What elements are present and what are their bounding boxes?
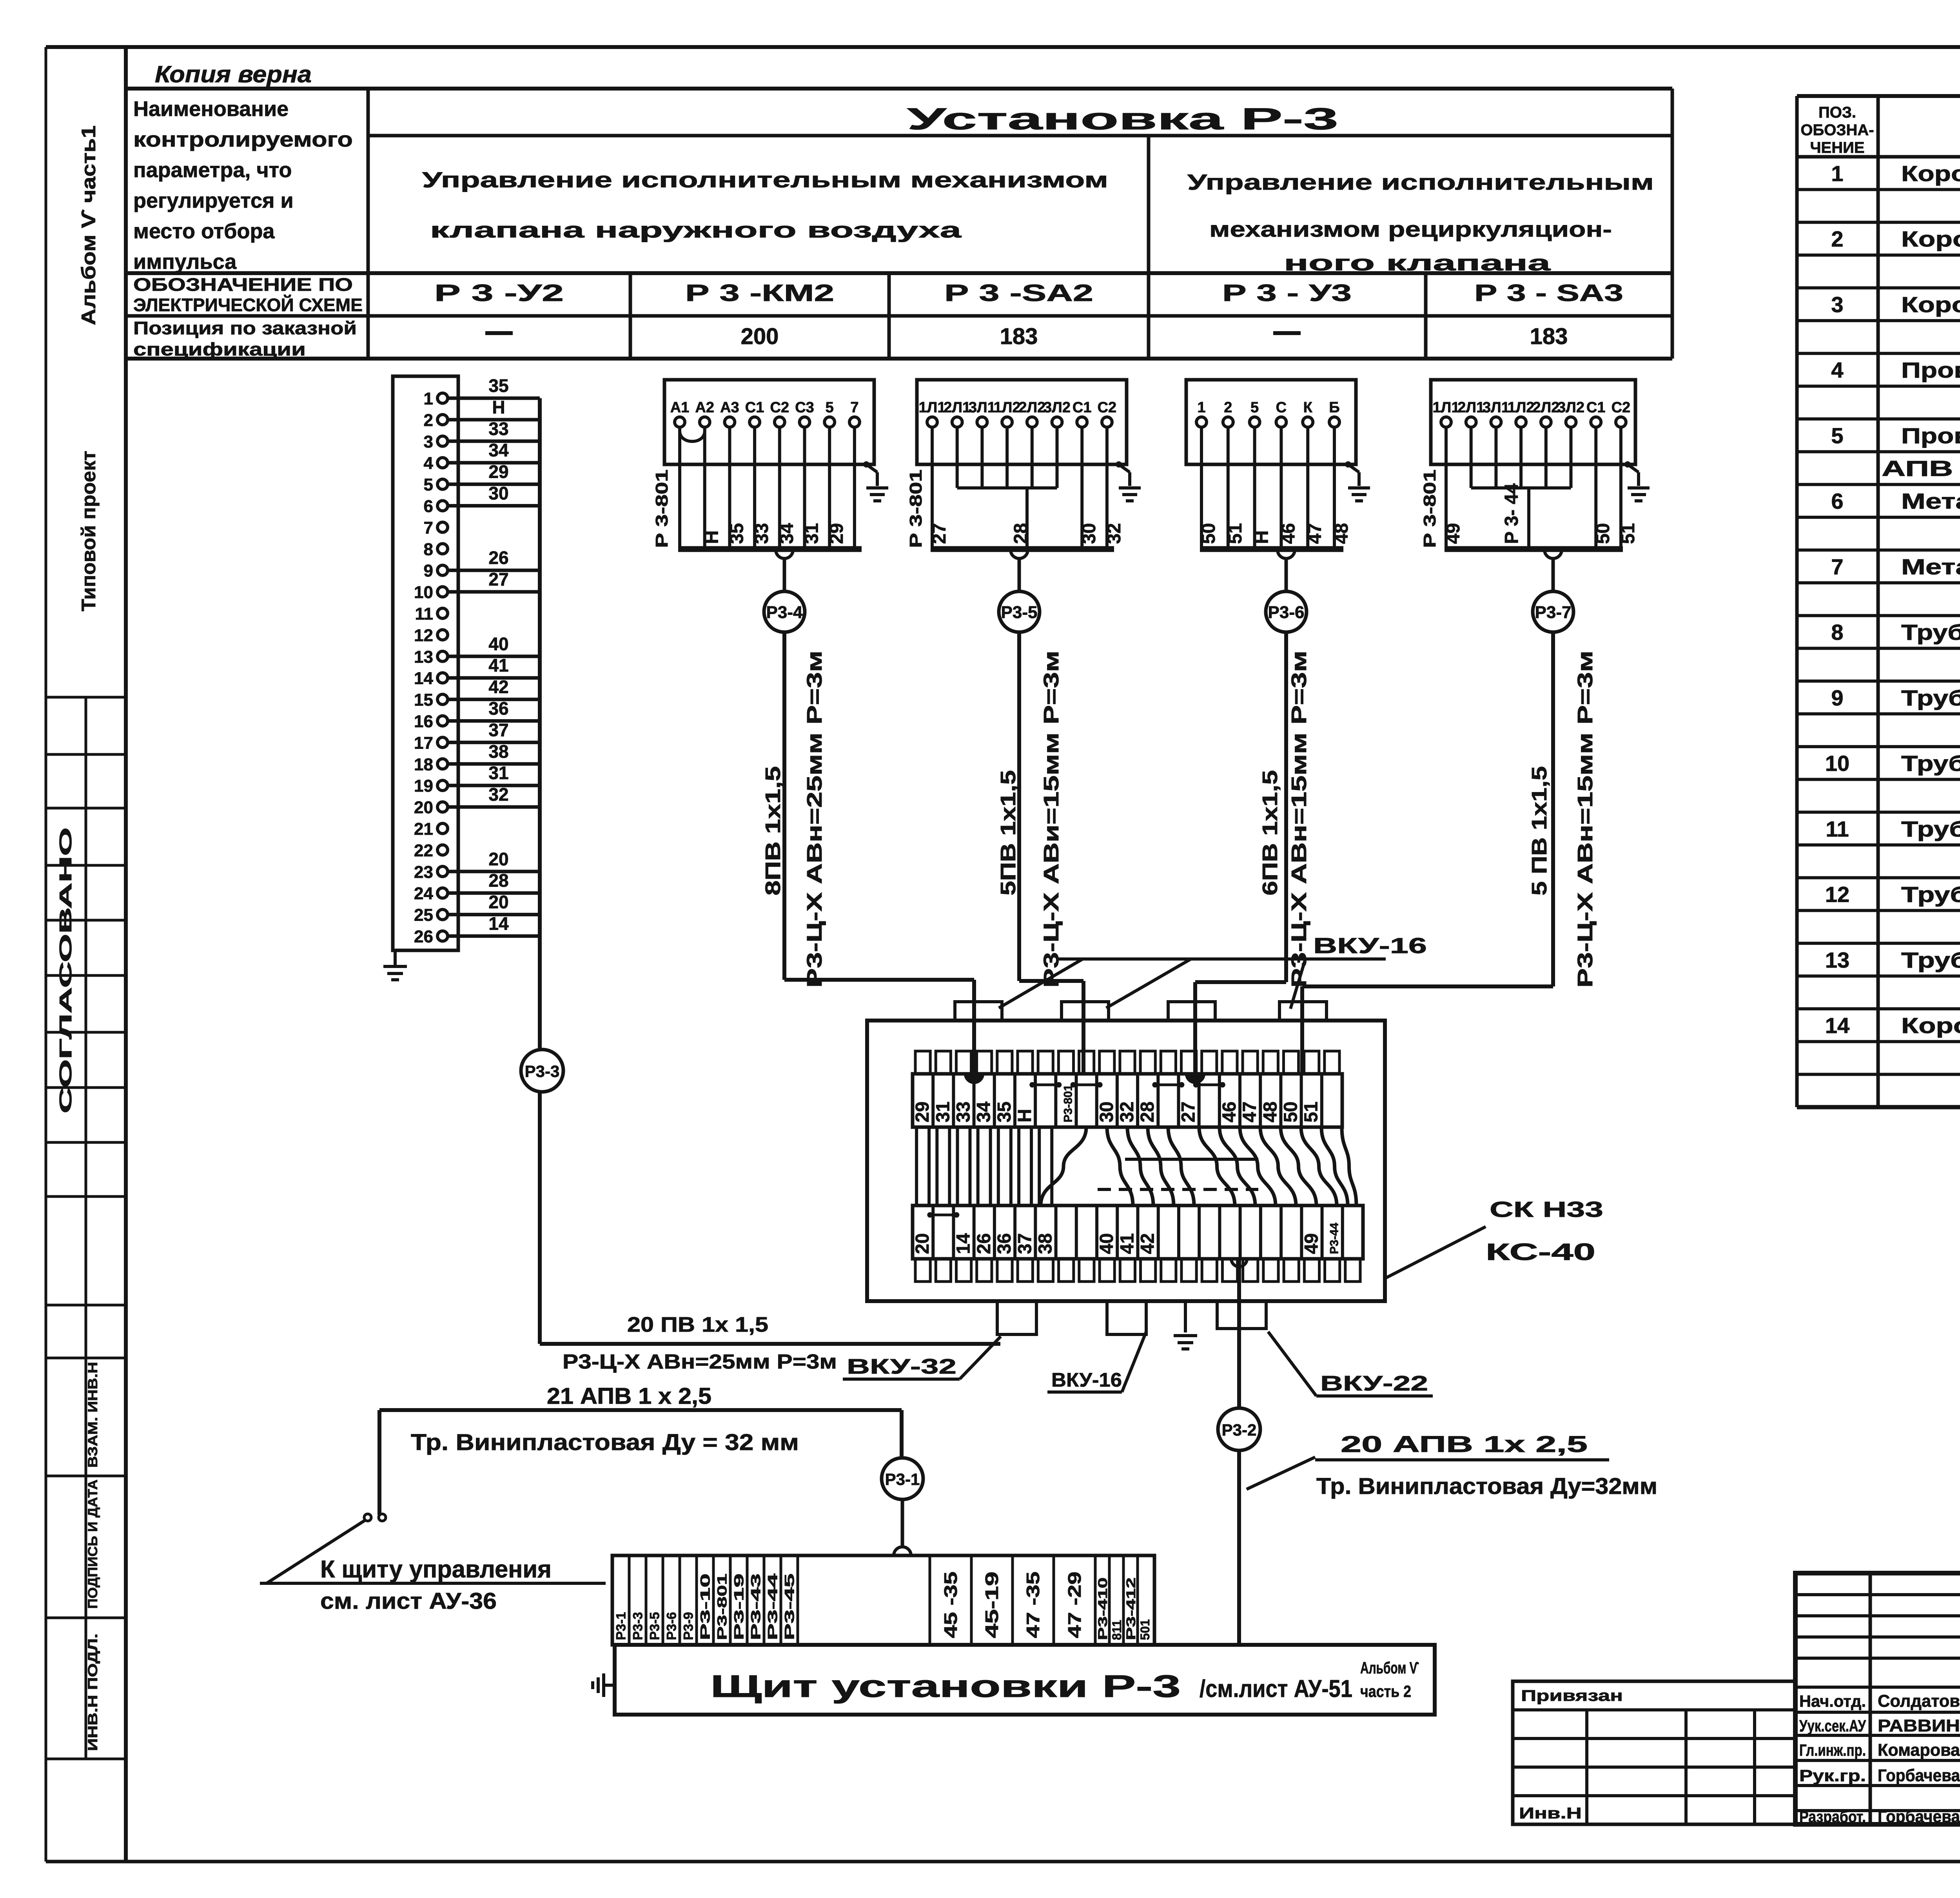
svg-text:Солдатов: Солдатов [1878,1691,1960,1711]
svg-text:Комарова: Комарова [1878,1740,1960,1760]
svg-text:Р 3 -У2: Р 3 -У2 [434,280,564,306]
svg-text:Металлорукав Р3-Ц-Х-15: Металлорукав Р3-Ц-Х-15 [1901,489,1960,513]
svg-text:/см.лист АУ-51: /см.лист АУ-51 [1200,1675,1352,1702]
svg-text:8: 8 [1831,620,1843,645]
svg-text:31: 31 [933,1102,953,1122]
svg-text:51: 51 [1618,523,1639,544]
svg-text:Рук.гр.: Рук.гр. [1799,1766,1866,1785]
svg-text:3Л1: 3Л1 [969,399,996,416]
svg-text:Р3-7: Р3-7 [1535,603,1572,622]
svg-text:50: 50 [1593,523,1613,544]
svg-text:Труба винипластовая Ду=20мм: Труба винипластовая Ду=20мм [1901,685,1960,710]
svg-text:1: 1 [424,389,433,408]
svg-text:ОБОЗНА-: ОБОЗНА- [1800,121,1874,139]
svg-text:42: 42 [1138,1233,1158,1254]
svg-text:Н: Н [1014,1109,1035,1122]
svg-text:см. лист АУ-36: см. лист АУ-36 [320,1588,497,1614]
svg-text:6: 6 [424,497,433,516]
svg-text:20: 20 [912,1233,933,1254]
svg-text:8: 8 [424,540,433,559]
svg-text:183: 183 [1000,324,1038,349]
svg-text:параметра, что: параметра, что [133,158,292,182]
svg-text:часть 2: часть 2 [1360,1682,1411,1700]
svg-text:ного клапана: ного клапана [1284,250,1551,275]
svg-text:К: К [1303,399,1313,416]
svg-text:3: 3 [424,432,433,451]
svg-text:Альбом Ѵ: Альбом Ѵ [1360,1659,1419,1677]
svg-text:Р3-44: Р3-44 [1328,1223,1341,1254]
svg-text:Привязан: Привязан [1521,1687,1623,1704]
svg-text:50: 50 [1198,523,1219,544]
svg-text:10: 10 [1825,751,1849,776]
svg-text:Труба винипластовая ДУ=15мм: Труба винипластовая ДУ=15мм [1901,620,1960,645]
svg-text:35: 35 [726,523,747,544]
svg-text:30: 30 [1079,523,1100,544]
svg-text:50: 50 [1281,1102,1301,1122]
svg-text:Коробка соединительная КС-40: Коробка соединительная КС-40 [1901,227,1960,251]
svg-text:место отбора: место отбора [133,219,275,243]
svg-text:12: 12 [414,626,433,645]
svg-text:10: 10 [414,583,433,602]
svg-text:14: 14 [953,1233,974,1254]
svg-text:1Л1: 1Л1 [1433,399,1460,416]
svg-text:Р3-Ц-Х АВн=15мм Р=3м: Р3-Ц-Х АВн=15мм Р=3м [1287,651,1311,988]
svg-text:Р3-Ц-Х АВи=15мм Р=3м: Р3-Ц-Х АВи=15мм Р=3м [1040,651,1063,988]
svg-text:28: 28 [1011,523,1031,544]
svg-text:Горбачева: Горбачева [1878,1807,1960,1826]
svg-text:28: 28 [488,870,508,891]
svg-text:Управление исполнительным: Управление исполнительным механизмом [422,167,1108,192]
svg-text:ПОДПИСЬ И ДАТА: ПОДПИСЬ И ДАТА [85,1479,100,1609]
svg-text:2Л2: 2Л2 [1018,399,1045,416]
svg-text:Р3-410: Р3-410 [1096,1577,1110,1640]
svg-text:СОГЛАСОВАНО: СОГЛАСОВАНО [56,827,75,1113]
svg-text:Труба электросварная Ду=15мм: Труба электросварная Ду=15мм [1901,948,1960,972]
svg-text:20: 20 [414,798,433,817]
svg-text:1Л1: 1Л1 [919,399,946,416]
svg-text:Н: Н [1252,530,1272,544]
svg-text:Р 3 -КМ2: Р 3 -КМ2 [685,280,834,306]
svg-text:1Л2: 1Л2 [994,399,1021,416]
svg-text:51: 51 [1301,1102,1322,1122]
svg-text:20: 20 [488,849,508,869]
svg-text:42: 42 [488,677,508,697]
svg-text:30: 30 [488,483,508,504]
svg-text:Щит установки Р-3: Щит установки Р-3 [710,1669,1181,1704]
svg-text:45 -35: 45 -35 [940,1572,961,1638]
svg-text:33: 33 [488,419,508,439]
svg-text:811: 811 [1110,1620,1124,1640]
svg-text:С1: С1 [745,399,764,416]
svg-text:13: 13 [414,647,433,667]
svg-text:Р3-6: Р3-6 [664,1612,679,1640]
svg-text:СК Н33: СК Н33 [1490,1197,1603,1222]
svg-text:Наименование: Наименование [133,97,289,121]
svg-text:27: 27 [929,523,950,544]
svg-text:Инв.Н: Инв.Н [1519,1805,1582,1822]
svg-text:Р 3-801: Р 3-801 [906,470,926,548]
svg-text:С1: С1 [1073,399,1092,416]
svg-text:25: 25 [414,906,433,925]
svg-text:501: 501 [1138,1619,1152,1640]
svg-text:29: 29 [826,523,847,544]
svg-text:Н: Н [492,397,505,417]
svg-text:Установка Р-3: Установка Р-3 [907,102,1338,136]
svg-text:механизмом рециркуляцион-: механизмом рециркуляцион- [1209,217,1612,241]
svg-text:49: 49 [1443,523,1464,544]
svg-text:К щиту управления: К щиту управления [320,1556,552,1583]
svg-text:41: 41 [1117,1233,1138,1254]
svg-text:33: 33 [751,523,772,544]
svg-text:32: 32 [1104,523,1125,544]
svg-text:Позиция по заказной: Позиция по заказной [133,318,357,338]
svg-text:23: 23 [414,863,433,882]
svg-text:4: 4 [424,454,434,473]
svg-text:ЧЕНИЕ: ЧЕНИЕ [1810,139,1864,156]
svg-text:спецификации: спецификации [133,339,306,359]
svg-text:Тр. Винипластовая Ду=32мм: Тр. Винипластовая Ду=32мм [1316,1474,1657,1499]
svg-text:С1: С1 [1586,399,1606,416]
svg-text:Р 3-801: Р 3-801 [1420,470,1439,548]
svg-text:Б: Б [1329,399,1339,416]
svg-text:5: 5 [1831,423,1843,448]
svg-text:26: 26 [414,927,433,946]
svg-text:Нач.отд.: Нач.отд. [1799,1692,1866,1710]
svg-text:34: 34 [777,523,797,544]
svg-text:48: 48 [1260,1102,1281,1122]
svg-text:7: 7 [850,399,858,416]
svg-text:47 -35: 47 -35 [1023,1572,1043,1638]
svg-text:Р3-801: Р3-801 [715,1574,730,1640]
svg-text:31: 31 [488,763,508,783]
svg-text:22: 22 [414,841,433,860]
svg-text:6: 6 [1831,489,1843,513]
svg-text:29: 29 [488,462,508,482]
svg-text:51: 51 [1225,523,1246,544]
svg-text:37: 37 [488,720,508,740]
svg-text:А2: А2 [695,399,714,416]
svg-text:Р 3- 44: Р 3- 44 [1501,483,1522,544]
svg-text:Р 3 - SA3: Р 3 - SA3 [1474,280,1623,306]
svg-text:15: 15 [414,691,433,710]
svg-text:18: 18 [414,755,433,774]
svg-text:36: 36 [994,1233,1015,1254]
svg-text:27: 27 [488,569,508,589]
svg-text:16: 16 [414,712,433,731]
svg-text:С3: С3 [795,399,814,416]
svg-text:35: 35 [488,375,508,396]
svg-text:47: 47 [1305,523,1325,544]
svg-text:35: 35 [994,1102,1015,1122]
svg-text:37: 37 [1014,1233,1035,1254]
svg-text:200: 200 [741,324,779,349]
svg-text:Р3-4: Р3-4 [766,603,803,622]
svg-text:ВКУ-16: ВКУ-16 [1051,1369,1122,1391]
svg-text:Копия верна: Копия верна [155,61,312,87]
svg-text:С2: С2 [1098,399,1117,416]
svg-text:28: 28 [1137,1102,1158,1122]
svg-text:27: 27 [1178,1102,1199,1122]
svg-text:6ПВ 1х1,5: 6ПВ 1х1,5 [1258,770,1282,896]
svg-text:Р3-5: Р3-5 [648,1612,662,1640]
svg-text:Провод с алюминиевой жилой: Провод с алюминиевой жилой [1901,423,1960,448]
svg-text:2: 2 [1831,227,1843,251]
svg-text:Провод с медной жилой ПВ1х: Провод с медной жилой ПВ1х1,5 [1901,358,1960,383]
svg-text:20: 20 [488,892,508,912]
svg-text:14: 14 [488,914,509,934]
svg-text:1: 1 [1831,161,1843,186]
svg-text:Р3-1: Р3-1 [885,1470,920,1488]
svg-text:26: 26 [974,1233,995,1254]
svg-text:Р3-6: Р3-6 [1268,603,1305,622]
svg-text:31: 31 [802,523,822,544]
svg-text:20 ПВ 1х 1,5: 20 ПВ 1х 1,5 [627,1313,768,1336]
svg-text:3Л2: 3Л2 [1557,399,1584,416]
svg-text:Р3-Ц-Х АВн=25мм Р=3м: Р3-Ц-Х АВн=25мм Р=3м [803,651,826,988]
svg-text:29: 29 [912,1102,933,1122]
svg-text:Н: Н [702,530,722,544]
svg-text:Труба винипластовая Ду=40мм: Труба винипластовая Ду=40мм [1901,882,1960,907]
svg-text:5 ПВ 1х1,5: 5 ПВ 1х1,5 [1528,766,1551,896]
svg-text:2: 2 [1224,399,1232,416]
svg-text:Коробка протяжная ПК 200х90: Коробка протяжная ПК 200х90 [1901,292,1960,317]
svg-text:34: 34 [974,1101,995,1122]
svg-text:40: 40 [1096,1233,1117,1254]
svg-text:ВКУ-16: ВКУ-16 [1313,933,1427,958]
svg-text:2Л1: 2Л1 [1457,399,1485,416]
svg-text:3Л2: 3Л2 [1044,399,1071,416]
svg-text:клапана наружного в: клапана наружного воздуха [430,218,962,242]
svg-text:2: 2 [424,411,433,430]
svg-text:Горбачева: Горбачева [1878,1766,1960,1785]
svg-text:7: 7 [1831,554,1843,579]
svg-text:13: 13 [1825,948,1849,972]
svg-text:46: 46 [1278,523,1299,544]
svg-text:Р3-10: Р3-10 [698,1574,713,1640]
svg-text:Р3-1: Р3-1 [614,1612,629,1640]
svg-text:21 АПВ 1 х 2,5: 21 АПВ 1 х 2,5 [547,1383,711,1409]
svg-text:А3: А3 [720,399,739,416]
svg-text:ВЗАМ. ИНВ.Н: ВЗАМ. ИНВ.Н [85,1362,100,1468]
svg-text:Разработ.: Разработ. [1799,1807,1866,1826]
svg-text:Уук.сек.АУ: Уук.сек.АУ [1799,1717,1866,1735]
svg-text:Гл.инж.пр.: Гл.инж.пр. [1799,1741,1866,1759]
svg-text:Р3-3: Р3-3 [525,1062,560,1080]
svg-text:49: 49 [1301,1233,1322,1254]
svg-text:32: 32 [488,784,508,805]
svg-text:Коробка соединительная КСК-8: Коробка соединительная КСК-8 [1901,161,1960,186]
svg-text:импульса: импульса [133,250,237,274]
svg-text:7: 7 [424,518,433,537]
svg-text:183: 183 [1530,324,1568,349]
svg-text:Р 3 - У3: Р 3 - У3 [1222,280,1352,306]
svg-text:9: 9 [1831,685,1843,710]
svg-text:Р3-45: Р3-45 [782,1574,797,1640]
svg-text:Р 3-801: Р 3-801 [652,470,671,548]
svg-text:5ПВ 1х1,5: 5ПВ 1х1,5 [996,770,1020,896]
svg-text:47: 47 [1240,1102,1260,1122]
svg-text:1Л2: 1Л2 [1508,399,1535,416]
svg-text:11: 11 [1826,816,1849,841]
svg-text:АПВ 1х2,5 ГОСТ 6323-79: АПВ 1х2,5 ГОСТ 6323-79 [1882,456,1960,481]
svg-text:С2: С2 [1612,399,1631,416]
svg-text:4: 4 [1831,358,1843,383]
svg-text:Р3-9: Р3-9 [681,1612,696,1640]
svg-text:1: 1 [1197,399,1205,416]
svg-text:Труба Винипластовая Ду=25мм: Труба Винипластовая Ду=25мм [1901,751,1960,776]
svg-text:36: 36 [488,698,508,719]
svg-text:Типовой проект: Типовой проект [78,451,100,611]
svg-text:3Л1: 3Л1 [1483,399,1510,416]
svg-text:Управление исполнительным: Управление исполнительным [1187,170,1654,194]
svg-text:12: 12 [1825,882,1849,907]
svg-text:5: 5 [1250,399,1259,416]
svg-text:Металлорукав Р3-Ц-Х-25: Металлорукав Р3-Ц-Х-25 [1901,554,1960,579]
svg-text:2Л2: 2Л2 [1532,399,1559,416]
svg-text:30: 30 [1096,1102,1117,1122]
svg-text:Коробка соединительная КСК-16: Коробка соединительная КСК-16 [1901,1013,1960,1038]
svg-text:Р 3 -SA2: Р 3 -SA2 [944,280,1093,306]
svg-text:С: С [1276,399,1287,416]
svg-text:Р3-5: Р3-5 [1001,603,1038,622]
svg-text:Р3-Ц-Х АВн=25мм Р=3м: Р3-Ц-Х АВн=25мм Р=3м [563,1351,837,1373]
svg-text:РАВВИН: РАВВИН [1878,1716,1960,1735]
svg-text:38: 38 [488,741,508,761]
svg-text:ВКУ-22: ВКУ-22 [1320,1372,1428,1395]
svg-text:2Л1: 2Л1 [944,399,971,416]
svg-text:Р3-43: Р3-43 [749,1574,764,1640]
svg-text:40: 40 [488,634,508,654]
svg-text:регулируется и: регулируется и [133,189,294,212]
svg-text:Р3-801: Р3-801 [1062,1084,1074,1122]
svg-text:Р3-3: Р3-3 [631,1612,646,1640]
svg-text:46: 46 [1219,1102,1240,1122]
svg-text:контролируемого: контролируемого [133,128,353,151]
svg-text:Альбом Ѵ часть1: Альбом Ѵ часть1 [78,125,100,325]
svg-text:Труба винипластовая Ду=32мм: Труба винипластовая Ду=32мм [1901,816,1960,841]
svg-text:19: 19 [414,776,433,796]
svg-text:33: 33 [953,1102,974,1122]
svg-text:А1: А1 [670,399,690,416]
svg-text:ЭЛЕКТРИЧЕСКОЙ СХЕМЕ: ЭЛЕКТРИЧЕСКОЙ СХЕМЕ [133,295,363,315]
svg-text:34: 34 [488,440,509,460]
svg-text:3: 3 [1831,292,1843,317]
svg-text:Р3-44: Р3-44 [766,1574,780,1640]
svg-text:5: 5 [826,399,834,416]
svg-text:48: 48 [1331,523,1352,544]
svg-text:32: 32 [1117,1102,1138,1122]
svg-text:КС-40: КС-40 [1486,1239,1595,1265]
svg-text:5: 5 [424,475,433,495]
svg-text:17: 17 [414,733,433,752]
svg-text:Р3-Ц-Х АВн=15мм Р=3м: Р3-Ц-Х АВн=15мм Р=3м [1573,651,1597,988]
svg-text:Р3-19: Р3-19 [732,1574,747,1640]
svg-text:Р3-412: Р3-412 [1124,1577,1138,1640]
svg-text:26: 26 [488,547,508,568]
svg-text:14: 14 [1825,1013,1849,1038]
svg-text:ПОЗ.: ПОЗ. [1818,104,1856,121]
svg-text:47 -29: 47 -29 [1064,1572,1085,1638]
svg-text:45-19: 45-19 [982,1572,1002,1638]
svg-text:41: 41 [488,655,508,676]
svg-text:Тр. Винипластовая Ду = 32: Тр. Винипластовая Ду = 32 мм [411,1430,799,1455]
svg-text:20 АПВ 1х 2,5: 20 АПВ 1х 2,5 [1341,1432,1588,1457]
svg-text:Р3-2: Р3-2 [1222,1421,1257,1439]
svg-text:9: 9 [424,561,433,580]
svg-text:11: 11 [415,604,433,624]
svg-text:21: 21 [414,819,433,839]
svg-text:ОБОЗНАЧЕНИЕ ПО: ОБОЗНАЧЕНИЕ ПО [133,274,353,295]
svg-text:14: 14 [414,669,433,688]
svg-text:ВКУ-32: ВКУ-32 [847,1355,956,1378]
svg-text:24: 24 [414,884,433,903]
svg-text:С2: С2 [770,399,789,416]
svg-text:ИНВ.Н ПОДЛ.: ИНВ.Н ПОДЛ. [85,1633,100,1751]
svg-text:8ПВ 1х1,5: 8ПВ 1х1,5 [761,766,785,896]
svg-text:38: 38 [1035,1233,1056,1254]
